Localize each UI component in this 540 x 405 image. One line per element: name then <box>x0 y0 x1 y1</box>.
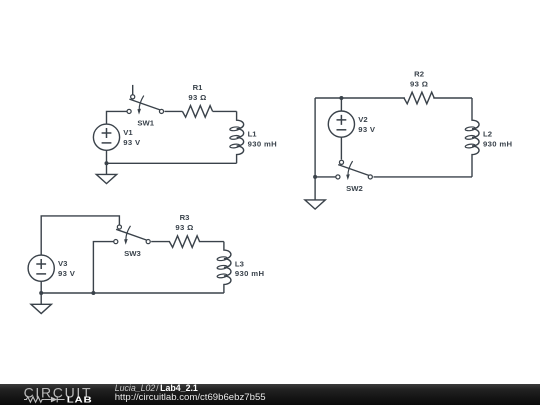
wire <box>106 150 108 163</box>
voltage source V1 <box>93 124 141 150</box>
svg-text:SW2: SW2 <box>346 184 363 193</box>
wire <box>199 241 224 243</box>
ground <box>96 163 116 183</box>
svg-text:LAB: LAB <box>67 395 93 404</box>
wire <box>314 98 316 177</box>
wire <box>93 242 114 293</box>
svg-text:93 Ω: 93 Ω <box>188 93 206 102</box>
junction <box>105 161 109 165</box>
CircuitLab logo <box>24 384 93 404</box>
wire <box>107 111 128 124</box>
svg-text:V3: V3 <box>58 259 67 268</box>
svg-text:93 V: 93 V <box>358 125 376 134</box>
svg-text:V2: V2 <box>358 115 367 124</box>
ground <box>31 293 51 314</box>
svg-text:V1: V1 <box>123 128 133 137</box>
wire <box>340 98 342 111</box>
switch SW2 <box>336 160 373 193</box>
junction <box>313 175 317 179</box>
svg-text:93 V: 93 V <box>58 269 76 278</box>
voltage source V3 <box>28 255 76 281</box>
junction <box>339 96 343 100</box>
svg-text:L3: L3 <box>235 259 244 268</box>
switch SW1 <box>127 85 164 128</box>
svg-text:R1: R1 <box>193 83 204 92</box>
svg-text:L1: L1 <box>248 129 258 138</box>
svg-text:93 Ω: 93 Ω <box>175 223 193 232</box>
svg-text:SW1: SW1 <box>137 119 154 128</box>
svg-text:R2: R2 <box>414 70 424 79</box>
ground <box>305 177 325 209</box>
wire <box>165 110 183 112</box>
switch SW3 <box>114 225 151 258</box>
inductor L2 <box>465 98 513 177</box>
svg-text:R3: R3 <box>180 213 190 222</box>
voltage source V2 <box>328 111 376 137</box>
wire <box>433 97 472 99</box>
svg-text:SW3: SW3 <box>124 249 141 258</box>
resistor R3 <box>169 213 199 247</box>
wire <box>151 241 170 243</box>
wire <box>41 292 224 294</box>
junction <box>91 291 95 295</box>
resistor R2 <box>404 70 434 104</box>
svg-text:93 Ω: 93 Ω <box>410 80 428 89</box>
inductor L3 <box>217 242 265 293</box>
wire <box>40 281 42 293</box>
svg-text:http://circuitlab.com/ct69b6eb: http://circuitlab.com/ct69b6ebz7b55 <box>115 392 266 403</box>
resistor R1 <box>182 83 212 117</box>
svg-text:L2: L2 <box>483 129 492 138</box>
wire <box>340 137 342 159</box>
inductor L1 <box>230 111 278 163</box>
wire <box>315 97 405 99</box>
svg-text:93 V: 93 V <box>123 138 141 147</box>
wire <box>213 110 237 112</box>
footer text <box>115 383 266 403</box>
wire <box>315 176 336 178</box>
wire <box>41 216 119 255</box>
wire <box>107 162 237 164</box>
junction <box>39 291 43 295</box>
svg-text:930 mH: 930 mH <box>483 139 513 148</box>
wire <box>374 176 473 178</box>
svg-text:930 mH: 930 mH <box>248 139 278 148</box>
svg-text:930 mH: 930 mH <box>235 269 265 278</box>
